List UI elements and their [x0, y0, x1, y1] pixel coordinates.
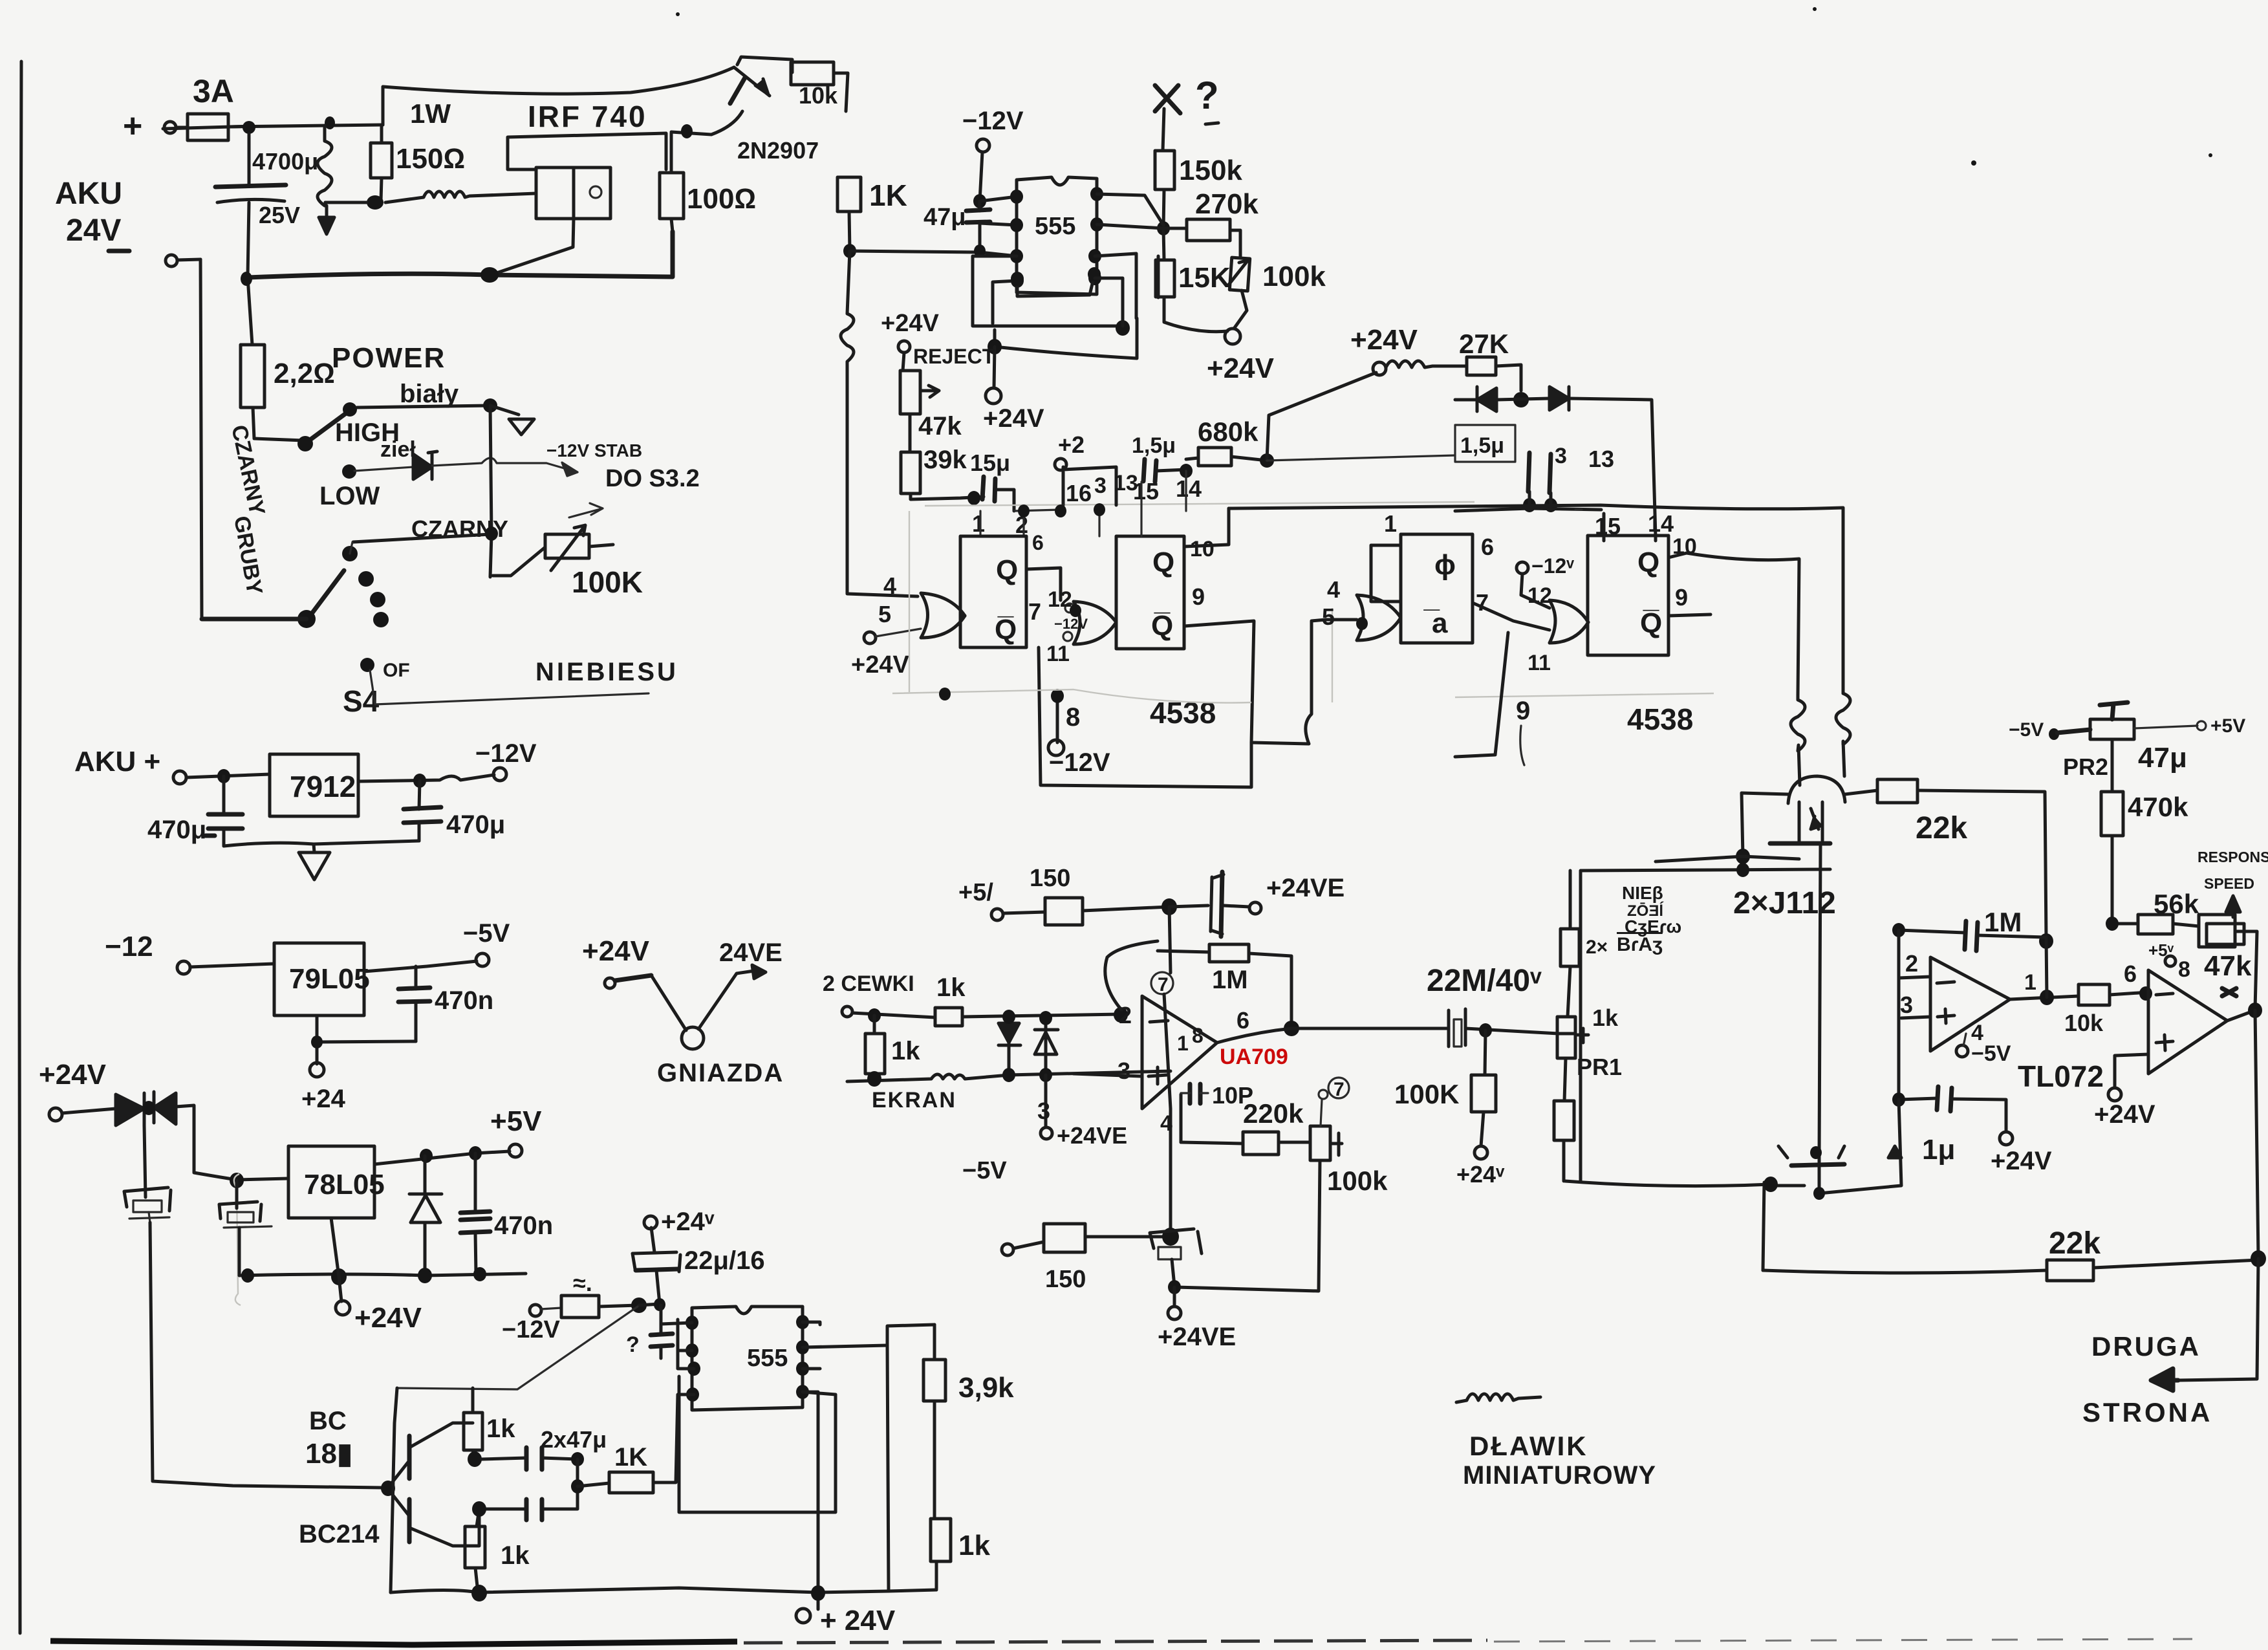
node -12V terminal — [530, 1305, 541, 1316]
wire 79L05 bottom to +24 — [317, 1015, 416, 1064]
svg-text:150: 150 — [1030, 865, 1070, 892]
resistor 680k — [1186, 458, 1198, 459]
resistor 1k series — [935, 1008, 962, 1026]
svg-text:+5/: +5/ — [958, 879, 993, 906]
resistor 3.9k — [933, 1325, 936, 1519]
wire to 79L05 — [190, 964, 274, 967]
wire gate D inputs — [1473, 603, 1550, 630]
wires cap to 555 pins — [980, 197, 1017, 225]
svg-text:3: 3 — [1118, 1058, 1130, 1084]
thick bottom wire to S4 pivot — [202, 617, 307, 622]
node collector BC182 — [468, 1451, 482, 1467]
node +24V bottom terminal — [796, 1609, 810, 1623]
wires under pin row — [1014, 471, 1186, 536]
svg-text:−5V: −5V — [1971, 1041, 2011, 1066]
svg-text:3A: 3A — [193, 73, 234, 109]
IC 7912 regulator — [270, 754, 358, 816]
resistor 10k — [2079, 984, 2110, 1005]
svg-text:25V: 25V — [259, 202, 300, 228]
svg-text:15: 15 — [1133, 478, 1159, 505]
node base rail — [381, 1481, 395, 1496]
diode D1 clamp — [1008, 1017, 1011, 1075]
svg-text:6: 6 — [2124, 961, 2137, 987]
svg-text:+24VE: +24VE — [1158, 1323, 1236, 1351]
wire 7912 out to -12V — [358, 775, 494, 781]
node — [241, 272, 252, 286]
svg-text:+24V: +24V — [1991, 1147, 2052, 1175]
trimmer 100k — [1229, 257, 1249, 291]
arrow up — [2226, 896, 2240, 917]
pot PR1 — [1557, 1017, 1575, 1058]
svg-text:11: 11 — [1528, 651, 1551, 675]
svg-text:1: 1 — [2024, 970, 2036, 995]
node pin2 — [1114, 1007, 1128, 1023]
svg-text:IRF 740: IRF 740 — [528, 100, 647, 133]
svg-text:−12ᵛ: −12ᵛ — [1531, 554, 1574, 578]
capacitor 2x47u upper — [482, 1458, 526, 1459]
svg-text:8: 8 — [1192, 1024, 1204, 1047]
resistor inside box top — [1569, 871, 1572, 929]
IC 78L05 regulator — [288, 1146, 374, 1218]
svg-text:8: 8 — [1066, 703, 1080, 732]
svg-text:18▮: 18▮ — [305, 1438, 352, 1470]
node junction 270k/15k — [1157, 221, 1170, 235]
svg-text:−12V: −12V — [502, 1316, 560, 1343]
resistor 150 — [1045, 898, 1083, 925]
wire gate A output to IC A — [960, 614, 965, 618]
gniazda V wires — [651, 971, 754, 1030]
svg-text:150: 150 — [1045, 1266, 1086, 1293]
svg-text:1,5μ: 1,5μ — [1132, 433, 1176, 458]
wire QB to second 4538 — [1184, 620, 1326, 744]
wire diode2 to +24VE — [1044, 1075, 1048, 1127]
wire PR2 wiper down — [2111, 739, 2114, 792]
resistor 150k — [1155, 151, 1174, 190]
svg-text:4538: 4538 — [1627, 702, 1693, 736]
svg-text:UA709: UA709 — [1220, 1045, 1288, 1069]
svg-text:4: 4 — [883, 572, 896, 599]
node AKU+ terminal — [173, 771, 186, 784]
svg-text:680k: 680k — [1198, 417, 1258, 447]
svg-text:4: 4 — [1160, 1111, 1172, 1136]
555 pin dots right — [1090, 187, 1103, 201]
svg-text:1μ: 1μ — [1922, 1134, 1955, 1166]
IC 4538 C block — [1401, 534, 1473, 643]
555 left pin dots — [686, 1316, 698, 1330]
node junction dot at cap top — [243, 121, 255, 134]
wire row under second pin row — [1455, 492, 1601, 511]
svg-text:1: 1 — [1177, 1032, 1189, 1055]
IC 555 bottom timer — [692, 1307, 803, 1410]
svg-text:+5V: +5V — [2210, 715, 2245, 737]
node +24V terminal top — [644, 1216, 657, 1229]
svg-text:1k: 1k — [486, 1415, 515, 1443]
node 1K bottom junction — [843, 244, 856, 258]
diagonal wire junction to BC cell — [397, 1307, 638, 1389]
wire from IC C outline around — [1371, 545, 1401, 602]
svg-text:+2: +2 — [1058, 431, 1085, 458]
terminal +2 — [1055, 459, 1066, 470]
svg-text:Q: Q — [996, 554, 1018, 586]
svg-text:2x47μ: 2x47μ — [541, 1426, 607, 1453]
wire HIGH contact to ground node — [357, 406, 490, 407]
svg-text:?: ? — [626, 1332, 640, 1357]
MOSFET module box IRF740 — [536, 168, 610, 219]
wire X down to 150k — [1163, 109, 1164, 151]
resistor R 10k feedback — [737, 57, 792, 72]
capacitor 470u left — [222, 776, 226, 846]
IC 4538 B block — [1116, 536, 1184, 649]
wire cap node down to 2.2R — [248, 277, 252, 345]
svg-text:SPEED: SPEED — [2204, 875, 2254, 892]
wire junction right — [1267, 455, 1455, 461]
svg-text:NIEβ: NIEβ — [1622, 883, 1663, 903]
svg-text:4700μ: 4700μ — [252, 148, 318, 175]
wire inductor down to gate input — [847, 364, 918, 596]
svg-text:Q̅: Q̅ — [995, 614, 1017, 646]
inductor M squiggle — [1386, 361, 1467, 367]
bottom rail BC cell — [391, 1588, 936, 1592]
pin3 wire — [1901, 1017, 1930, 1018]
fuse F1 3A — [188, 114, 228, 140]
node between diodes — [1513, 392, 1529, 407]
svg-text:+24V: +24V — [354, 1302, 422, 1334]
OR gate B — [1074, 602, 1116, 644]
svg-text:6: 6 — [1237, 1007, 1249, 1034]
svg-text:14: 14 — [1176, 475, 1202, 502]
node +24V under 78L05 — [336, 1301, 350, 1315]
node +24VE bottom — [1173, 1287, 1176, 1307]
svg-text:1K: 1K — [614, 1443, 647, 1471]
svg-text:100k: 100k — [1327, 1166, 1388, 1196]
node +24V below 555 — [994, 347, 995, 388]
transistor Q BC182 — [407, 1436, 412, 1479]
svg-text:biały: biały — [400, 380, 459, 408]
svg-text:DRUGA: DRUGA — [2091, 1331, 2201, 1362]
svg-text:47μ: 47μ — [2138, 742, 2187, 774]
output node — [1284, 1021, 1299, 1036]
input network box to PR1 — [1559, 1028, 1588, 1043]
inner gate-drive box outline — [508, 133, 666, 169]
svg-text:1K: 1K — [869, 179, 907, 212]
wire 78L05 output to +5V — [374, 1151, 510, 1164]
resistor 1K coupling — [578, 1483, 609, 1486]
stray node dot — [939, 688, 951, 700]
IC 79L05 regulator — [274, 943, 364, 1015]
svg-text:−12V: −12V — [1054, 616, 1088, 632]
wire source down to bottom rail — [493, 219, 574, 274]
capacitor lower of 2x47u — [486, 1508, 526, 1511]
svg-text:270k: 270k — [1195, 188, 1258, 220]
wire gate row horizontal — [1656, 856, 1799, 862]
wire left vertical of BC cell — [391, 1388, 397, 1592]
capacitor 47u — [978, 201, 982, 252]
diode D left of pair — [1477, 387, 1496, 411]
wire trimmer to +24V — [1234, 290, 1247, 329]
svg-text:22M/40ᵛ: 22M/40ᵛ — [1427, 964, 1542, 998]
svg-text:2 CEWKI: 2 CEWKI — [823, 972, 914, 996]
switch S HIGH lever — [307, 411, 349, 442]
svg-text:1k: 1k — [936, 973, 966, 1002]
svg-text:2×J112: 2×J112 — [1733, 886, 1836, 920]
resistor R 2.2R — [241, 345, 265, 407]
wire 22k to right column — [1917, 790, 2046, 939]
svg-text:−12V: −12V — [475, 739, 537, 768]
svg-text:NIEBIESU: NIEBIESU — [535, 658, 678, 686]
EKRAN rail — [847, 1071, 1171, 1081]
wire top loop to gate C — [1326, 618, 1357, 622]
pin2 wire — [1899, 977, 1930, 978]
svg-text:LOW: LOW — [319, 482, 380, 510]
node minus terminal — [166, 255, 177, 266]
small u glyph inside module — [590, 186, 601, 198]
svg-text:+24V: +24V — [851, 651, 909, 678]
capacitor 470u right — [419, 781, 420, 841]
OR gate D — [1550, 600, 1588, 643]
op-amp UA709 triangle — [1142, 996, 1217, 1109]
svg-text:+24ᵛ: +24ᵛ — [1456, 1161, 1505, 1188]
svg-text:39k: 39k — [923, 446, 967, 474]
wire gate B out to IC B — [1115, 621, 1118, 624]
svg-text:470μ: 470μ — [446, 810, 505, 839]
node -12V terminal — [493, 768, 506, 781]
long vertical through to JFET2 — [1819, 843, 1820, 1158]
svg-text:BC214: BC214 — [299, 1520, 380, 1548]
svg-text:3,9k: 3,9k — [958, 1372, 1014, 1404]
svg-text:470n: 470n — [435, 986, 493, 1015]
big input box — [1581, 869, 1830, 1181]
vertical power feed through opamp — [1164, 907, 1171, 1237]
svg-text:470n: 470n — [494, 1211, 553, 1240]
svg-text:+24VE: +24VE — [1266, 874, 1345, 902]
svg-text:7: 7 — [1028, 598, 1041, 625]
bottom wire and ground — [224, 841, 419, 846]
wire + terminal to fuse — [176, 126, 188, 129]
svg-text:27K: 27K — [1459, 329, 1509, 359]
tall loop right of 555 — [887, 1325, 934, 1591]
svg-text:TL072: TL072 — [2018, 1059, 2104, 1093]
svg-text:150Ω: 150Ω — [396, 143, 465, 175]
inductor coil left — [1791, 696, 1805, 785]
svg-text:470k: 470k — [2128, 792, 2188, 822]
svg-text:ɸ: ɸ — [1434, 549, 1456, 581]
svg-text:11: 11 — [1046, 642, 1070, 666]
svg-text:AKU: AKU — [55, 177, 122, 211]
svg-text:−12V: −12V — [962, 107, 1024, 135]
node -5V terminal — [476, 953, 489, 966]
svg-text:2N2907: 2N2907 — [737, 137, 819, 164]
trimmer 100k — [1310, 1126, 1330, 1160]
node gniazda socket circle — [682, 1027, 704, 1049]
555 right pin dots — [796, 1315, 809, 1329]
svg-text:3: 3 — [1900, 992, 1913, 1018]
pencil guide lines — [925, 502, 1474, 506]
wires 555 left pins to loop — [661, 1319, 694, 1369]
node input terminal — [842, 1006, 852, 1017]
capacitor 22u/16 — [651, 1228, 654, 1252]
inductor coil right — [1836, 693, 1850, 776]
transistor Q BC214 — [407, 1499, 412, 1542]
svg-text:3: 3 — [1094, 473, 1107, 498]
svg-text:DO S3.2: DO S3.2 — [605, 465, 700, 492]
resistor N. input — [541, 1308, 561, 1309]
JFET dome 2xJ112 — [1788, 776, 1845, 803]
svg-text:Q̅: Q̅ — [1151, 610, 1173, 642]
node +24V gate input — [864, 632, 876, 644]
circled 7 second — [1328, 1078, 1349, 1098]
resistor 1k lower — [477, 1509, 479, 1526]
pencil squiggle near resonator — [234, 1174, 241, 1305]
svg-text:470μ: 470μ — [147, 816, 206, 844]
pot response speed 47k — [2199, 915, 2235, 947]
node drain junction — [681, 124, 693, 138]
pot PR2 47k — [2057, 730, 2090, 733]
node: + input terminal — [164, 122, 176, 133]
svg-text:1k: 1k — [501, 1541, 530, 1570]
svg-text:15K: 15K — [1178, 262, 1231, 294]
potentiometer 100K alarm — [493, 547, 545, 576]
switch LOW contact — [342, 464, 356, 479]
curve pin2 up to 1M row — [1105, 941, 1158, 1009]
svg-text:7912: 7912 — [290, 770, 356, 803]
wire JFET2 to zig row — [1771, 1100, 1901, 1193]
left vertical input column — [1897, 930, 1901, 1100]
IC C outline loop left — [1455, 633, 1508, 757]
svg-text:≈.: ≈. — [573, 1270, 592, 1296]
resistor 39k — [901, 452, 920, 494]
node -12 terminal — [177, 961, 190, 974]
svg-text:Q: Q — [1152, 547, 1174, 578]
svg-text:1k: 1k — [1592, 1004, 1619, 1031]
svg-text:555: 555 — [747, 1345, 788, 1372]
page left border line — [19, 61, 21, 1633]
svg-text:+5ᵛ: +5ᵛ — [2148, 940, 2174, 960]
IC 4538 A block — [960, 536, 1026, 647]
resistor below PR1 — [1564, 1058, 1566, 1101]
svg-text:47μ: 47μ — [923, 204, 966, 231]
wire 1k to pin2 node — [962, 1014, 1121, 1017]
wire diode to corner down to pin14 — [1569, 398, 1656, 537]
svg-text:2: 2 — [1905, 950, 1918, 977]
bottom rail of converter — [248, 232, 673, 277]
label minus dash — [109, 249, 129, 254]
svg-text:3: 3 — [1555, 444, 1567, 468]
gate inductor squiggle — [385, 191, 536, 202]
node +5V terminal — [509, 1144, 522, 1157]
node -12V gate D — [1517, 562, 1528, 574]
inductor L vertical mid-left — [841, 251, 854, 364]
svg-text:1W: 1W — [410, 98, 451, 129]
svg-text:8: 8 — [2178, 957, 2190, 982]
small caps near pin 3 — [1528, 453, 1551, 493]
node — [571, 1452, 584, 1466]
svg-text:DŁAWIK: DŁAWIK — [1469, 1431, 1588, 1461]
svg-text:PR1: PR1 — [1577, 1054, 1622, 1080]
pot REJECT 47k — [898, 341, 910, 353]
resistor 1k bottom right — [931, 1519, 951, 1561]
IC 555 timer top — [1017, 177, 1097, 294]
node +24 terminal — [310, 1063, 324, 1077]
svg-text:1M: 1M — [1212, 966, 1248, 994]
JFET1 gate bar and arrow — [1770, 841, 1830, 846]
resistor 1k shunt — [873, 1015, 876, 1034]
svg-text:79L05: 79L05 — [289, 963, 370, 995]
wire apex to output — [1217, 1028, 1449, 1043]
capacitor 1.5u box second — [1455, 425, 1515, 462]
svg-text:+: + — [123, 107, 142, 145]
svg-text:3: 3 — [1037, 1098, 1050, 1124]
svg-text:POWER: POWER — [332, 342, 446, 374]
pin 8 — [2165, 956, 2176, 966]
output wire op A — [2010, 996, 2079, 999]
diode D zener to -12VSTAB — [354, 467, 413, 471]
svg-text:100K: 100K — [572, 565, 643, 599]
wire S4 to NIEBIESKI — [370, 670, 649, 704]
wire S4 contact to czarny row — [350, 542, 352, 554]
wire Q to gate B via pin7 — [1026, 568, 1061, 600]
piezo resonator symbol A — [144, 1125, 146, 1197]
svg-text:−12V: −12V — [1049, 748, 1110, 777]
node junction — [631, 1297, 647, 1313]
wire coil bottom joining — [325, 201, 367, 204]
OR gate A — [921, 593, 965, 638]
node gniazda left terminal — [605, 978, 615, 988]
wire right pins of 555 — [1095, 254, 1158, 326]
piezo resonator symbol B — [235, 1180, 239, 1208]
capacitor 1u lower — [1899, 1098, 1937, 1100]
svg-text:+24: +24 — [301, 1085, 346, 1113]
wire left vertical to 22k rail — [1763, 1182, 1764, 1270]
wire 79L05 out to -5V — [364, 961, 477, 972]
svg-text:100K: 100K — [1394, 1079, 1459, 1109]
svg-text:10k: 10k — [799, 82, 838, 109]
svg-text:+ 24V: + 24V — [820, 1605, 896, 1636]
wire resonator down to BC base rail — [150, 1222, 382, 1488]
svg-text:555: 555 — [1035, 213, 1075, 240]
pin 8 to -12V — [1056, 694, 1059, 743]
arrow DO S3.2 — [569, 503, 603, 517]
wire fuse to box corner — [228, 125, 383, 127]
svg-text:−5V: −5V — [962, 1157, 1007, 1184]
resistor 100K to +24V — [1485, 1030, 1485, 1075]
wire vertical czarny junction — [490, 406, 491, 577]
long wire IC B pin10 over to right coils — [1229, 505, 1843, 693]
capacitor 470n output — [475, 1153, 476, 1274]
node +24V 1u — [2000, 1132, 2013, 1145]
dlawik coil doodle — [1456, 1394, 1540, 1402]
IC 4538 D block — [1588, 536, 1669, 655]
wire output node down from 1M — [2046, 937, 2047, 997]
resistor 1M feedback — [1158, 951, 1209, 952]
555 outer loop left-bottom — [679, 1376, 836, 1512]
capacitor 470n — [415, 966, 418, 1041]
circled 7 pin — [1151, 972, 1173, 994]
svg-text:REJECT: REJECT — [913, 345, 995, 368]
wire top outline of converter box — [383, 67, 734, 125]
svg-text:78L05: 78L05 — [304, 1169, 385, 1200]
node +24V terminal — [49, 1108, 62, 1121]
svg-text:−12V STAB: −12V STAB — [546, 440, 642, 461]
node -12V terminal — [977, 139, 989, 152]
capacitor C 4700u 25V — [248, 134, 251, 184]
svg-text:10: 10 — [1190, 537, 1215, 561]
svg-text:Q̅: Q̅ — [1640, 607, 1662, 639]
JFET2 symbol — [1791, 1164, 1844, 1166]
svg-text:220k: 220k — [1243, 1098, 1304, 1129]
node +24VE — [1249, 902, 1261, 914]
wire output down right side — [2255, 1010, 2258, 1257]
svg-text:6: 6 — [1032, 531, 1044, 554]
